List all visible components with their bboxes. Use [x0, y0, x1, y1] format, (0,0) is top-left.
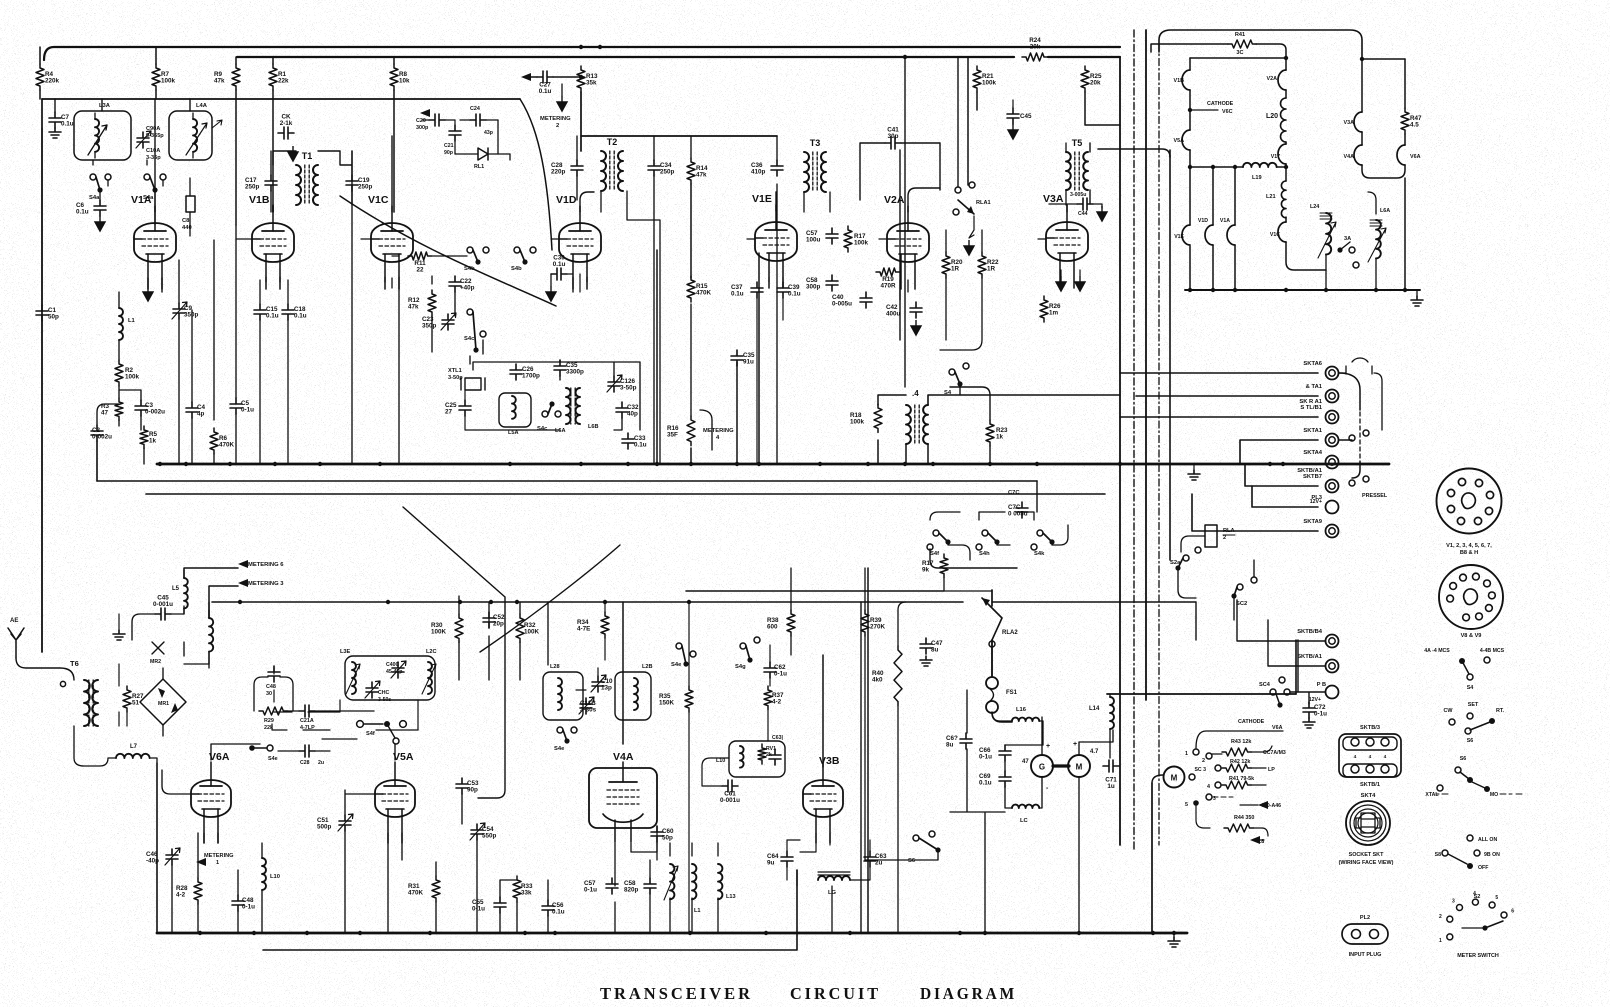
junction: [184, 462, 188, 466]
wire v1d anode: [580, 192, 594, 212]
svg-text:1u: 1u: [1107, 783, 1115, 790]
wire c30: [567, 274, 580, 292]
wire screen vertical 2: [1133, 30, 1135, 850]
socket SKTA9: [1303, 519, 1338, 538]
svg-text:L2B: L2B: [642, 664, 653, 670]
svg-text:C10A: C10A: [146, 148, 160, 154]
wire rv7: [944, 578, 992, 591]
svg-text:C28: C28: [300, 760, 310, 766]
wire HT bus heavy: [157, 463, 1389, 466]
svg-text:V3A: V3A: [1043, 193, 1064, 205]
svg-text:CIRCUIT: CIRCUIT: [790, 984, 881, 1003]
svg-text:ALL ON: ALL ON: [1478, 837, 1497, 843]
wire v1a anode: [154, 99, 156, 212]
wire rla coil: [1181, 536, 1217, 552]
wire screen vertical 4: [1158, 44, 1160, 845]
capacitor C35 3300p: [554, 360, 584, 376]
capacitor C58b 820p: [624, 878, 656, 894]
coil L11: [664, 864, 678, 900]
svg-text:100k: 100k: [161, 78, 176, 85]
svg-text:M: M: [1171, 774, 1178, 783]
svg-text:XTL1: XTL1: [448, 368, 462, 374]
svg-text:300p: 300p: [806, 284, 821, 291]
wire ladder box: [1195, 743, 1197, 745]
resistor R34 4-7E: [577, 612, 609, 638]
wire vert 691c: [690, 184, 692, 278]
wire heater outer top: [1159, 30, 1362, 59]
svg-text:10k: 10k: [399, 78, 410, 85]
capacitor C18 0.1u: [282, 304, 307, 320]
switch S4e: [554, 727, 577, 752]
svg-text:R29: R29: [264, 718, 274, 724]
svg-text:0-1u: 0-1u: [979, 754, 992, 761]
wire v1a pin: [161, 278, 163, 292]
coil L17: [1012, 805, 1039, 824]
relay RLA1: [953, 182, 991, 255]
wire v1b anode: [272, 205, 274, 212]
text T4: [912, 389, 919, 398]
svg-text:35k: 35k: [586, 80, 597, 87]
svg-text:R41: R41: [1235, 32, 1245, 38]
ground arrow C6: [95, 216, 105, 231]
wire mid col drops: [459, 602, 548, 680]
junction: [655, 462, 659, 466]
capacitor C58 300p: [806, 275, 838, 291]
svg-text:DIAGRAM: DIAGRAM: [920, 984, 1017, 1003]
arrow v3a cath1: [1056, 270, 1066, 291]
resistor R3 47: [101, 398, 123, 420]
junction: [378, 462, 382, 466]
svg-text:T5: T5: [1072, 138, 1083, 148]
svg-text:C24: C24: [470, 106, 480, 112]
svg-text:1: 1: [216, 860, 219, 866]
capacitor C44 0-005: [1070, 192, 1093, 217]
wire v1e pins: [757, 277, 783, 464]
svg-text:0.1u: 0.1u: [61, 121, 74, 128]
svg-text:S4f: S4f: [366, 731, 375, 737]
capacitor C72 0-1u: [1303, 702, 1327, 718]
ground C72: [1303, 718, 1315, 728]
svg-text:C44: C44: [1078, 211, 1088, 217]
svg-text:4: 4: [1354, 754, 1357, 760]
svg-text:350p: 350p: [422, 323, 437, 330]
svg-text:C21A: C21A: [300, 718, 314, 724]
junction: [848, 931, 852, 935]
svg-text:SKTA1: SKTA1: [1303, 428, 1322, 434]
svg-text:27: 27: [445, 409, 453, 416]
coil L21: [1266, 181, 1286, 218]
svg-text:S4: S4: [1467, 685, 1474, 691]
svg-text:470K: 470K: [408, 890, 424, 897]
capacitor C25 27: [445, 400, 471, 416]
svg-text:+40p: +40p: [460, 285, 475, 292]
socket SKTB4: [1297, 468, 1338, 493]
capacitor C48 0-1u: [232, 895, 255, 911]
svg-text:2: 2: [1202, 758, 1205, 764]
socket PB: [1309, 682, 1339, 703]
capacitor C21 90p: [444, 120, 461, 156]
svg-text:V1A: V1A: [1220, 218, 1230, 224]
coil L3E box: [345, 656, 435, 700]
svg-text:V4A: V4A: [613, 751, 634, 763]
tube V1D: [556, 194, 601, 289]
wire t6 area: [119, 664, 127, 726]
coil LG output: [818, 872, 850, 896]
relay RLA2 contact: [982, 598, 1018, 647]
title: [600, 984, 1017, 1003]
wire mid bottom: [689, 602, 770, 933]
switch S4b2: [511, 247, 536, 272]
svg-text:100k: 100k: [850, 419, 865, 426]
svg-text:SOCKET SKT: SOCKET SKT: [1349, 852, 1384, 858]
wire bottom mid rail: [212, 600, 963, 604]
svg-text:3A: 3A: [1344, 236, 1351, 242]
svg-text:3-50p: 3-50p: [620, 385, 637, 392]
svg-text:-40p: -40p: [146, 858, 159, 865]
svg-text:S4b: S4b: [511, 266, 522, 272]
wire c20 col: [437, 120, 455, 154]
wire s2a: [1178, 570, 1196, 598]
svg-text:V5A: V5A: [1174, 138, 1185, 144]
tube V3A: [1043, 193, 1088, 288]
svg-text:SKTA4: SKTA4: [1303, 450, 1322, 456]
wire HT+ top rail: [44, 47, 1120, 60]
svg-text:100K: 100K: [431, 629, 447, 636]
resistor R14 47k: [687, 158, 708, 184]
coil L28 wind: [550, 664, 562, 710]
wire v1c anode: [391, 136, 393, 212]
svg-text:2: 2: [556, 123, 559, 129]
coil L13: [718, 864, 736, 900]
switch S4b: [464, 247, 489, 272]
tube V1E: [752, 193, 797, 288]
svg-text:L10: L10: [270, 874, 280, 880]
svg-text:V1B: V1B: [249, 194, 270, 206]
wire V2A screen pair: [900, 57, 905, 387]
svg-text:4-2: 4-2: [176, 892, 186, 899]
wire l14: [1109, 694, 1111, 758]
svg-text:SKT4: SKT4: [1361, 793, 1377, 799]
svg-text:C45: C45: [1020, 113, 1032, 120]
coil L3A winding: [95, 103, 111, 158]
capacitor C22 +40p: [449, 276, 475, 292]
wire s6b: [865, 852, 938, 860]
heater V1E b: [1174, 225, 1190, 245]
coil L2C box: [0, 0, 1, 1]
svg-text:V1C: V1C: [368, 194, 389, 206]
junction: [931, 462, 935, 466]
svg-text:3-50s: 3-50s: [378, 697, 391, 703]
wire bottom return: [263, 870, 797, 950]
coil L22 aerial: [1310, 204, 1336, 258]
capacitor C42 400u: [886, 302, 922, 335]
wire heater mid chain: [1286, 58, 1326, 270]
svg-text:CATHODE: CATHODE: [1238, 719, 1265, 725]
junction: [598, 45, 602, 49]
resistor R39 270K: [861, 610, 886, 636]
svg-text:91u: 91u: [743, 359, 754, 366]
coil L5A wind: [508, 396, 519, 436]
svg-text:1700p: 1700p: [522, 373, 540, 380]
wire heater right top: [1360, 57, 1405, 61]
svg-text:1: 1: [1185, 751, 1188, 757]
svg-text:8u: 8u: [931, 647, 939, 654]
svg-text:S4f: S4f: [930, 551, 939, 557]
junction: [579, 45, 583, 49]
resistor R30 100K: [431, 614, 463, 642]
wire socket feed E: [1245, 464, 1318, 486]
capacitor C36 410p: [751, 160, 783, 176]
capacitor C10 13p: [591, 675, 613, 692]
resistor R12 47k: [408, 290, 436, 316]
capacitor C40C 45-45p: [386, 661, 406, 678]
resistor R28 4-2: [176, 878, 202, 904]
svg-text:12V+: 12V+: [1309, 697, 1321, 703]
wire v1e anode: [775, 192, 777, 211]
wire rl1 drop: [498, 120, 510, 160]
capacitor C21A 4-7p: [287, 705, 374, 731]
capacitor C32 40p: [616, 402, 639, 418]
resistor R15 470K: [687, 276, 712, 302]
capacitor C54 550p: [470, 823, 497, 840]
terminal T6 input: [60, 681, 65, 686]
junction: [818, 462, 822, 466]
wire socket feed F: [1252, 486, 1318, 507]
wire heater branch2: [1213, 167, 1235, 290]
resistor R13 35k: [577, 66, 598, 92]
svg-text:470R: 470R: [880, 283, 896, 290]
text CATHODE: [1238, 719, 1283, 731]
svg-text:L5: L5: [172, 586, 180, 592]
wire r40: [791, 568, 906, 933]
capacitor C61 0-001u: [720, 780, 740, 804]
wire vert 737: [736, 362, 738, 464]
wire t1 wiring: [273, 151, 352, 212]
svg-text:470K: 470K: [219, 442, 235, 449]
capacitor C41 30p: [885, 127, 901, 150]
svg-text:100u: 100u: [806, 237, 821, 244]
capacitor C39 0.1: [777, 282, 801, 298]
wire socket feed A: [1120, 372, 1318, 374]
wire midrow: [272, 668, 418, 730]
wire s4c: [432, 276, 483, 364]
text METERING 6: [238, 560, 284, 568]
wire V1D to L28 diag: [480, 545, 620, 652]
svg-text:350p: 350p: [184, 312, 199, 319]
switch S4f: [249, 745, 299, 762]
svg-text:V3A: V3A: [1344, 120, 1355, 126]
svg-text:S4a: S4a: [89, 195, 100, 201]
svg-text:+: +: [1073, 741, 1077, 748]
wire v4a bottom: [615, 842, 718, 933]
wire v1c cath: [385, 277, 399, 464]
resistor R8 10k: [390, 64, 410, 90]
wire v2a anode: [908, 188, 940, 212]
switch S6 key: [1444, 702, 1505, 744]
junction: [1268, 462, 1272, 466]
svg-text:L6B: L6B: [588, 424, 599, 430]
svg-text:0-002u: 0-002u: [92, 434, 112, 441]
svg-text:(WIRING FACE VIEW): (WIRING FACE VIEW): [1339, 860, 1394, 866]
switch S4 t4: [944, 363, 969, 396]
svg-text:1k: 1k: [996, 434, 1004, 441]
tube base B9: [1439, 565, 1503, 639]
svg-text:V2A: V2A: [1267, 76, 1278, 82]
svg-text:2u: 2u: [875, 860, 883, 867]
svg-text:L6A: L6A: [1380, 208, 1390, 214]
capacitor C57b 0-1u: [584, 878, 618, 894]
svg-text:30: 30: [266, 691, 272, 697]
wire vert 861: [860, 602, 862, 933]
svg-text:0-1u: 0-1u: [774, 671, 787, 678]
svg-text:V4A: V4A: [1344, 154, 1355, 160]
capacitor C126 3-50p: [607, 375, 637, 392]
coil L1: [119, 308, 136, 340]
svg-text:0-1u: 0-1u: [1314, 711, 1327, 718]
svg-text:0-001u: 0-001u: [153, 601, 173, 608]
svg-text:V1, 2, 3, 4, 5, 6, 7,: V1, 2, 3, 4, 5, 6, 7,: [1446, 543, 1492, 549]
svg-text:5: 5: [1185, 802, 1188, 808]
svg-text:METERING: METERING: [204, 853, 234, 859]
svg-text:C63|: C63|: [772, 735, 784, 741]
switch S4a: [89, 174, 111, 201]
svg-text:R41 79-5k: R41 79-5k: [1229, 776, 1254, 782]
svg-text:LP: LP: [1268, 767, 1275, 773]
svg-text:L13: L13: [726, 894, 736, 900]
svg-text:90p: 90p: [467, 787, 478, 794]
svg-text:L28: L28: [550, 664, 560, 670]
svg-text:RT.: RT.: [1496, 708, 1505, 714]
svg-text:RLA: RLA: [1223, 528, 1235, 534]
resistor R47 4.5: [1401, 108, 1422, 134]
wire relay wire2: [930, 549, 1017, 568]
wire lg bottom: [797, 870, 832, 933]
resistor R40 4k0: [872, 646, 902, 706]
switch S4g2: [322, 721, 406, 744]
svg-text:MR2: MR2: [150, 659, 161, 665]
svg-text:3-005u: 3-005u: [1070, 192, 1086, 198]
wire l7: [74, 726, 157, 766]
capacitor C10A 3-35p: [136, 126, 164, 161]
capacitor C6 0.1u: [76, 200, 106, 216]
wire heater right chain: [1362, 59, 1405, 178]
capacitor C5 0-1u: [230, 398, 254, 414]
resistor R11 22: [408, 252, 432, 274]
svg-text:410p: 410p: [751, 169, 766, 176]
wire relay RLA2 drop: [991, 590, 993, 676]
heater V1C: [1270, 222, 1286, 242]
ground heater: [1411, 290, 1423, 306]
wire grid stubs: [236, 238, 1046, 240]
coil L6: [209, 618, 213, 652]
wire r11: [392, 256, 467, 288]
svg-text:RLA1: RLA1: [976, 200, 991, 206]
svg-text:47k: 47k: [214, 78, 225, 85]
heater V6A b: [1397, 145, 1421, 165]
svg-text:R44 350: R44 350: [1234, 815, 1254, 821]
junction: [988, 462, 992, 466]
switch S4k: [1031, 530, 1055, 557]
svg-text:0-1u: 0-1u: [472, 906, 485, 913]
resistor R37 4-2: [764, 686, 784, 710]
switch S6b: [908, 831, 941, 864]
svg-text:S4e: S4e: [671, 662, 682, 668]
svg-text:L3A: L3A: [99, 103, 111, 109]
resistor R17 100k: [844, 226, 869, 252]
transformer T5: [1066, 138, 1088, 190]
svg-text:0.1u: 0.1u: [731, 291, 744, 298]
coil L6A aerial: [1368, 208, 1390, 262]
svg-text:22k: 22k: [278, 78, 289, 85]
svg-text:S6: S6: [908, 858, 916, 864]
svg-text:G: G: [1039, 763, 1045, 772]
svg-text:51: 51: [132, 700, 140, 707]
svg-text:INPUT PLUG: INPUT PLUG: [1349, 952, 1382, 958]
transformer T6: [70, 659, 98, 726]
junction: [688, 931, 692, 935]
svg-text:SKTB/1: SKTB/1: [1360, 782, 1380, 788]
svg-text:OFF: OFF: [1478, 865, 1488, 871]
svg-text:R42 12k: R42 12k: [1230, 759, 1250, 765]
svg-text:T3: T3: [810, 138, 821, 148]
capacitor C17 250p: [245, 175, 277, 191]
resistor R5 1k: [140, 426, 158, 448]
svg-text:C40C: C40C: [386, 662, 400, 668]
svg-text:XTAL: XTAL: [1425, 792, 1439, 798]
svg-text:600: 600: [767, 624, 778, 631]
wire xtal top: [473, 360, 640, 430]
svg-text:PL2: PL2: [1360, 915, 1370, 921]
transformer T1: [296, 151, 318, 205]
capacitor C63c 0-02: [769, 735, 784, 765]
junction: [158, 462, 162, 466]
svg-text:4A -4 MCS: 4A -4 MCS: [1424, 648, 1450, 654]
wire sw row: [930, 512, 1068, 560]
capacitor CHC 3-50s: [365, 681, 391, 703]
wire xtal cluster: [465, 390, 560, 430]
wire skta6 arc: [1339, 358, 1382, 430]
resistor R16 35F: [667, 416, 695, 446]
resistor R44 350: [1224, 815, 1268, 845]
resistor R6 470K: [210, 428, 235, 454]
svg-text:V1E: V1E: [1174, 234, 1184, 240]
capacitor C26 1700p: [510, 364, 540, 380]
switch SC4: [1259, 677, 1290, 708]
svg-text:3-30s: 3-30s: [580, 707, 597, 714]
svg-text:4p: 4p: [197, 411, 205, 418]
junction heater: [1188, 288, 1192, 292]
svg-text:R43 12k: R43 12k: [1231, 739, 1251, 745]
wire audio top: [992, 712, 1012, 722]
wire HT+ second rail: [237, 56, 1120, 58]
svg-text:.4: .4: [912, 389, 919, 398]
svg-text:45-45p: 45-45p: [386, 669, 402, 675]
wire screen feed T2 T3: [581, 135, 777, 137]
svg-text:CATHODE: CATHODE: [1207, 101, 1234, 107]
wire c19 links: [271, 151, 352, 464]
switch S2a: [1170, 547, 1201, 571]
wire screen drop R13: [580, 92, 582, 151]
transformer T3: [804, 138, 826, 192]
wire v3a anode: [1066, 205, 1068, 212]
svg-text:SC4: SC4: [1259, 682, 1271, 688]
svg-text:3: 3: [1452, 898, 1455, 904]
wire T5 output vertical: [1169, 150, 1171, 560]
socket SKTA4: [1303, 450, 1338, 469]
junction: [318, 462, 322, 466]
svg-text:TRANSCEIVER: TRANSCEIVER: [600, 984, 753, 1003]
ground T6 area: [113, 614, 125, 640]
